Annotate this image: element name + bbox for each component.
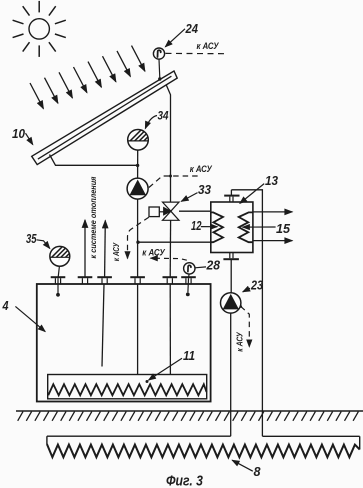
svg-text:35: 35 [26,231,37,246]
svg-text:10: 10 [12,126,25,141]
svg-text:к АСУ: к АСУ [197,41,220,51]
svg-text:11: 11 [183,348,195,363]
svg-text:28: 28 [206,258,221,273]
svg-text:к системе отопления: к системе отопления [89,176,98,258]
svg-text:34: 34 [158,108,169,122]
svg-text:24: 24 [185,21,198,36]
svg-text:13: 13 [265,173,278,188]
svg-text:к АСУ: к АСУ [142,247,165,257]
svg-text:15: 15 [276,221,291,236]
svg-text:Фиг. 3: Фиг. 3 [166,473,203,488]
svg-text:8: 8 [254,464,262,479]
svg-text:к АСУ: к АСУ [235,332,244,352]
svg-text:к АСУ: к АСУ [190,164,213,174]
svg-text:33: 33 [198,182,211,197]
svg-text:к АСУ: к АСУ [112,242,121,261]
svg-text:12: 12 [191,218,202,233]
svg-text:4: 4 [2,298,9,313]
svg-text:23: 23 [250,278,263,293]
